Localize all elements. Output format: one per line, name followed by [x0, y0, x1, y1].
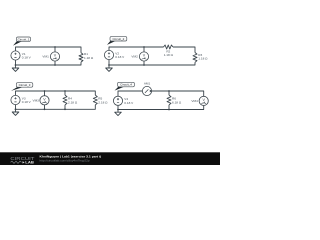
svg-text:Circuit_4: Circuit_4: [120, 83, 132, 87]
svg-text:0.18 V: 0.18 V: [22, 56, 32, 60]
svg-text:2.18 Ω: 2.18 Ω: [68, 100, 78, 104]
svg-text:VM3: VM3: [33, 99, 40, 103]
svg-text:2.18 Ω: 2.18 Ω: [98, 100, 108, 104]
svg-text:0.18 V: 0.18 V: [124, 101, 134, 105]
svg-text:Circuit_2: Circuit_2: [112, 37, 124, 41]
svg-text:1.18 Ω: 1.18 Ω: [84, 56, 94, 60]
svg-text:VM2: VM2: [131, 55, 138, 59]
svg-text:0.18 V: 0.18 V: [22, 100, 32, 104]
svg-text:1.18 Ω: 1.18 Ω: [164, 53, 174, 57]
svg-text:1.18 Ω: 1.18 Ω: [198, 57, 208, 61]
svg-text:Circuit_3: Circuit_3: [19, 83, 31, 87]
svg-text:VM4: VM4: [191, 99, 198, 103]
svg-text:http://circuitlab.com/c9uy4m7h: http://circuitlab.com/c9uy4m7hqy22p: [40, 159, 90, 163]
svg-text:VM1: VM1: [42, 55, 49, 59]
svg-text:0.18 V: 0.18 V: [115, 55, 125, 59]
svg-text:AM1: AM1: [144, 81, 151, 85]
svg-text:Circuit_1: Circuit_1: [18, 37, 30, 41]
svg-text:6.18 Ω: 6.18 Ω: [172, 100, 182, 104]
svg-text:LAB: LAB: [25, 161, 34, 165]
